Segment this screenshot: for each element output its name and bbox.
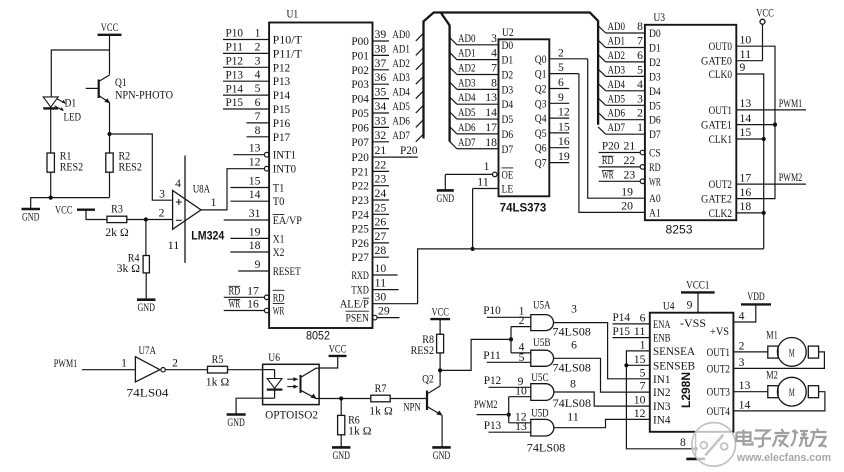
wire OUT3 to M2 xyxy=(733,391,767,393)
svg-text:8: 8 xyxy=(255,125,261,137)
watermark url www.elecfans.com xyxy=(736,452,831,464)
svg-text:OUT4: OUT4 xyxy=(707,406,731,418)
svg-text:P20: P20 xyxy=(400,145,418,157)
resistor R3 xyxy=(105,204,146,239)
svg-text:22: 22 xyxy=(624,155,636,167)
wire U2 LE to ALE xyxy=(471,189,475,251)
svg-text:23: 23 xyxy=(624,170,636,182)
svg-text:2k Ω: 2k Ω xyxy=(105,227,128,239)
wire ALE/P to CLKs and LE xyxy=(373,249,764,304)
svg-text:17: 17 xyxy=(740,172,752,184)
svg-text:GND: GND xyxy=(433,450,451,462)
svg-text:M2: M2 xyxy=(766,369,778,381)
svg-text:16: 16 xyxy=(558,136,570,148)
svg-text:RES2: RES2 xyxy=(119,162,143,174)
svg-text:11: 11 xyxy=(634,326,646,338)
svg-text:P13: P13 xyxy=(273,76,291,88)
svg-text:14: 14 xyxy=(485,107,497,119)
svg-text:P25: P25 xyxy=(351,224,369,236)
svg-text:T1: T1 xyxy=(273,183,285,195)
svg-text:8253: 8253 xyxy=(666,223,693,237)
wire OUT4 to M2 xyxy=(733,392,825,411)
op-amp U8A LM324 xyxy=(159,156,225,263)
svg-text:10: 10 xyxy=(740,34,752,46)
svg-text:M: M xyxy=(789,345,795,359)
svg-text:P20: P20 xyxy=(602,141,620,153)
svg-text:3k Ω: 3k Ω xyxy=(117,263,140,275)
svg-text:P26: P26 xyxy=(351,238,369,250)
svg-text:25: 25 xyxy=(375,202,387,214)
svg-text:28: 28 xyxy=(375,245,387,257)
svg-text:U5D: U5D xyxy=(531,405,549,419)
ground GND under R6 xyxy=(332,447,351,462)
svg-text:8: 8 xyxy=(680,437,686,449)
svg-text:AD6: AD6 xyxy=(392,115,410,127)
svg-text:15: 15 xyxy=(740,127,752,139)
svg-text:14: 14 xyxy=(739,399,751,411)
svg-text:13: 13 xyxy=(739,380,751,392)
node Q1 emitter junction to op-amp xyxy=(107,132,172,200)
svg-text:RES2: RES2 xyxy=(411,345,435,357)
svg-text:P21: P21 xyxy=(351,166,369,178)
resistor R8 xyxy=(411,334,444,371)
svg-text:31: 31 xyxy=(249,208,261,220)
bus AD0-AD7 address/data xyxy=(416,13,606,149)
svg-text:AD7: AD7 xyxy=(392,130,410,142)
svg-text:11: 11 xyxy=(477,177,489,189)
node P11 xyxy=(483,350,531,362)
svg-text:P12: P12 xyxy=(484,375,502,387)
svg-text:38: 38 xyxy=(375,43,387,55)
svg-text:-VSS: -VSS xyxy=(680,318,706,330)
svg-text:5: 5 xyxy=(255,83,261,95)
ground GND at U2 OE xyxy=(437,174,455,205)
svg-text:GND: GND xyxy=(332,450,350,462)
svg-text:IN4: IN4 xyxy=(653,414,671,426)
svg-text:8: 8 xyxy=(570,379,576,391)
svg-text:AD3: AD3 xyxy=(458,77,476,89)
svg-text:7: 7 xyxy=(637,36,643,48)
svg-text:AD3: AD3 xyxy=(608,64,626,76)
ground GND under R4 xyxy=(137,300,156,315)
resistor R2 xyxy=(106,134,142,198)
svg-text:11: 11 xyxy=(740,49,752,61)
svg-text:GATE1: GATE1 xyxy=(701,120,732,132)
svg-text:4: 4 xyxy=(175,178,181,190)
svg-text:3: 3 xyxy=(739,357,745,369)
svg-text:LE: LE xyxy=(502,184,514,196)
svg-text:M: M xyxy=(789,385,795,399)
svg-text:2: 2 xyxy=(159,208,165,220)
power VCC at R8 xyxy=(430,307,450,335)
svg-text:LED: LED xyxy=(64,112,82,124)
svg-text:8: 8 xyxy=(491,77,497,89)
svg-text:4: 4 xyxy=(739,311,745,323)
watermark elecfans logo xyxy=(692,423,736,467)
svg-text:U5B: U5B xyxy=(533,335,551,349)
wire Q0 to A0 xyxy=(588,59,645,199)
svg-text:P00: P00 xyxy=(351,36,369,48)
svg-text:D3: D3 xyxy=(502,84,514,96)
svg-text:9: 9 xyxy=(255,259,261,271)
svg-text:L298N: L298N xyxy=(679,372,693,408)
svg-text:29: 29 xyxy=(378,306,390,318)
resistor R1 xyxy=(47,151,83,198)
svg-text:SENSEA: SENSEA xyxy=(653,346,696,358)
svg-text:AD1: AD1 xyxy=(392,43,410,55)
svg-text:P12: P12 xyxy=(273,62,291,74)
svg-text:17: 17 xyxy=(247,286,259,298)
AND gate U5C 74LS08 xyxy=(515,370,591,410)
node P13 xyxy=(484,420,531,432)
svg-text:R7: R7 xyxy=(375,383,387,395)
svg-text:CLK1: CLK1 xyxy=(709,134,733,146)
svg-text:3: 3 xyxy=(571,304,577,316)
svg-text:15: 15 xyxy=(634,354,646,366)
svg-text:GND: GND xyxy=(227,417,245,429)
svg-text:TXD: TXD xyxy=(351,285,369,297)
svg-text:RD: RD xyxy=(649,162,661,174)
svg-text:X2: X2 xyxy=(273,247,285,259)
svg-text:VCC: VCC xyxy=(756,8,774,20)
AND gate U5B 74LS08 xyxy=(519,335,591,374)
wire Q2 collector to gate inputs xyxy=(438,337,513,372)
ground GND left xyxy=(21,209,40,224)
svg-text:P06: P06 xyxy=(351,122,369,134)
svg-text:Q7: Q7 xyxy=(535,158,547,170)
svg-text:U5C: U5C xyxy=(531,370,549,384)
power VCC at U6 collector xyxy=(319,343,346,368)
svg-text:RD: RD xyxy=(602,155,614,167)
wire OUT0 to GATE1/GATE2 xyxy=(736,46,777,198)
svg-text:WR: WR xyxy=(602,170,614,182)
svg-text:SENSEB: SENSEB xyxy=(653,360,695,372)
wire U7A out to R5 xyxy=(165,369,207,371)
wire U5D out to IN4 xyxy=(554,419,650,427)
svg-text:20: 20 xyxy=(621,201,633,213)
svg-text:Q2: Q2 xyxy=(535,84,547,96)
IC U1 8052 xyxy=(223,7,418,343)
svg-text:ENA: ENA xyxy=(653,319,671,331)
svg-text:27: 27 xyxy=(375,231,387,243)
svg-text:37: 37 xyxy=(375,58,387,70)
node P14 at ENA xyxy=(613,312,650,324)
svg-text:NPN: NPN xyxy=(403,402,421,414)
svg-text:D3: D3 xyxy=(649,71,661,83)
svg-text:IN2: IN2 xyxy=(653,387,671,399)
svg-text:Q0: Q0 xyxy=(535,54,547,66)
svg-text:AD0: AD0 xyxy=(458,33,476,45)
svg-text:PSEN: PSEN xyxy=(346,313,370,325)
svg-text:U1: U1 xyxy=(287,7,299,21)
svg-text:D6: D6 xyxy=(502,129,514,141)
svg-text:14: 14 xyxy=(249,189,261,201)
svg-text:D0: D0 xyxy=(649,28,661,40)
svg-text:AD7: AD7 xyxy=(458,137,476,149)
svg-text:P11/T: P11/T xyxy=(273,48,302,60)
svg-text:6: 6 xyxy=(558,77,564,89)
IC U2 74LS373 xyxy=(445,25,587,215)
svg-text:D5: D5 xyxy=(502,114,514,126)
svg-text:2: 2 xyxy=(255,41,261,53)
svg-text:4: 4 xyxy=(637,79,643,91)
svg-text:GND: GND xyxy=(22,212,40,224)
AND gate U5A 74LS08 xyxy=(519,298,591,339)
svg-text:INT1: INT1 xyxy=(273,150,297,162)
wire R3 node to op-amp inverting input xyxy=(144,217,173,255)
svg-text:AD2: AD2 xyxy=(392,58,410,70)
svg-text:11: 11 xyxy=(375,278,387,290)
svg-text:PWM2: PWM2 xyxy=(474,399,498,411)
svg-text:1k Ω: 1k Ω xyxy=(348,426,371,438)
svg-text:8052: 8052 xyxy=(306,329,330,343)
svg-text:18: 18 xyxy=(485,137,497,149)
svg-text:Q1: Q1 xyxy=(115,77,127,89)
svg-text:Q5: Q5 xyxy=(535,128,547,140)
svg-text:OUT3: OUT3 xyxy=(707,387,731,399)
svg-text:35: 35 xyxy=(375,87,387,99)
svg-text:22: 22 xyxy=(375,159,387,171)
svg-text:2: 2 xyxy=(637,108,643,120)
svg-text:P07: P07 xyxy=(351,137,369,149)
power VDD at U4 pin4 xyxy=(733,291,771,322)
svg-text:16: 16 xyxy=(740,187,752,199)
node P10 xyxy=(483,305,531,317)
svg-text:39: 39 xyxy=(375,29,387,41)
svg-text:D2: D2 xyxy=(502,70,514,82)
svg-text:Q2: Q2 xyxy=(422,374,434,386)
svg-text:16: 16 xyxy=(247,299,259,311)
svg-text:5: 5 xyxy=(558,62,564,74)
svg-text:P01: P01 xyxy=(351,50,369,62)
svg-text:D1: D1 xyxy=(502,55,514,67)
svg-text:VCC1: VCC1 xyxy=(686,280,710,292)
svg-text:RES2: RES2 xyxy=(60,162,84,174)
svg-text:VCC: VCC xyxy=(329,343,347,355)
svg-text:2: 2 xyxy=(739,340,745,352)
svg-text:AD0: AD0 xyxy=(392,29,410,41)
svg-text:P11: P11 xyxy=(226,42,244,54)
svg-text:6: 6 xyxy=(640,312,646,324)
svg-text:P10: P10 xyxy=(483,305,501,317)
svg-text:AD2: AD2 xyxy=(608,50,626,62)
wire SENSEA/SENSEB to GND rail xyxy=(624,351,698,451)
node PWM1 input xyxy=(54,358,136,370)
svg-text:R5: R5 xyxy=(212,354,224,366)
svg-text:4: 4 xyxy=(491,48,497,60)
svg-text:6: 6 xyxy=(571,339,577,351)
svg-text:U4: U4 xyxy=(663,299,675,313)
svg-text:D2: D2 xyxy=(649,57,661,69)
svg-text:CS: CS xyxy=(649,148,661,160)
wire bottom rail R1/R2 to GND xyxy=(31,196,110,210)
ground GND at U6 cathode xyxy=(227,398,263,429)
svg-text:X1: X1 xyxy=(273,233,285,245)
wire U6 emitter to R7 node xyxy=(319,396,371,400)
svg-text:VCC: VCC xyxy=(431,307,449,319)
svg-text:P16: P16 xyxy=(273,118,291,130)
svg-text:4: 4 xyxy=(255,69,261,81)
motor M1 xyxy=(766,330,819,367)
svg-text:9: 9 xyxy=(687,300,693,312)
svg-text:D6: D6 xyxy=(649,115,661,127)
optocoupler U6 OPTOISO2 xyxy=(263,350,320,421)
svg-text:D5: D5 xyxy=(649,100,661,112)
svg-text:21: 21 xyxy=(375,145,387,157)
svg-text:7: 7 xyxy=(255,111,261,123)
svg-text:74LS08: 74LS08 xyxy=(553,396,592,410)
svg-text:3: 3 xyxy=(491,33,497,45)
svg-text:AD1: AD1 xyxy=(608,36,626,48)
svg-text:13: 13 xyxy=(485,92,497,104)
svg-text:36: 36 xyxy=(375,72,387,84)
svg-text:1: 1 xyxy=(637,122,643,134)
svg-text:AD1: AD1 xyxy=(458,48,476,60)
svg-text:P10/T: P10/T xyxy=(273,35,302,47)
resistor R4 xyxy=(117,253,150,300)
svg-text:AD2: AD2 xyxy=(458,63,476,75)
node PWM2 at OUT2 xyxy=(736,172,806,184)
svg-text:CLK0: CLK0 xyxy=(709,69,733,81)
svg-text:AD7: AD7 xyxy=(608,122,626,134)
svg-text:VCC: VCC xyxy=(101,22,119,34)
svg-text:2: 2 xyxy=(558,47,564,59)
svg-text:33: 33 xyxy=(375,115,387,127)
svg-text:P15: P15 xyxy=(613,326,631,338)
svg-text:74LS08: 74LS08 xyxy=(552,325,591,339)
svg-text:12: 12 xyxy=(634,408,646,420)
svg-text:13: 13 xyxy=(515,421,527,433)
svg-text:10: 10 xyxy=(375,263,387,275)
AND gate U5D 74LS08 xyxy=(515,405,579,454)
IC U3 8253 xyxy=(599,10,752,236)
svg-text:P14: P14 xyxy=(273,90,291,102)
svg-text:13: 13 xyxy=(249,143,261,155)
svg-text:D7: D7 xyxy=(502,144,514,156)
svg-text:1k Ω: 1k Ω xyxy=(369,405,392,417)
svg-text:12: 12 xyxy=(558,107,570,119)
svg-text:74LS04: 74LS04 xyxy=(127,385,169,399)
svg-text:P15: P15 xyxy=(226,97,244,109)
wire OUT1 to M1 xyxy=(733,351,767,353)
svg-text:1: 1 xyxy=(211,197,217,209)
svg-text:P05: P05 xyxy=(351,108,369,120)
svg-text:P15: P15 xyxy=(273,104,291,116)
svg-text:GND: GND xyxy=(437,193,455,205)
svg-text:WR: WR xyxy=(649,176,661,188)
svg-text:18: 18 xyxy=(249,240,261,252)
ground GND at U4 pin8 xyxy=(680,432,721,459)
svg-text:P13: P13 xyxy=(484,420,502,432)
inverter U7A 74LS04 xyxy=(121,343,178,399)
svg-text:A1: A1 xyxy=(649,207,661,219)
svg-text:11: 11 xyxy=(168,240,180,252)
resistor R7 xyxy=(369,383,427,418)
svg-text:EA/VP: EA/VP xyxy=(273,215,302,227)
svg-text:AD5: AD5 xyxy=(458,107,476,119)
svg-text:AD5: AD5 xyxy=(608,93,626,105)
svg-text:WR: WR xyxy=(229,299,241,311)
svg-text:RXD: RXD xyxy=(351,270,369,282)
svg-text:32: 32 xyxy=(375,130,387,142)
svg-text:9: 9 xyxy=(740,62,746,74)
svg-text:U6: U6 xyxy=(268,350,280,364)
svg-text:OUT1: OUT1 xyxy=(707,347,731,359)
svg-text:AD6: AD6 xyxy=(608,108,626,120)
svg-text:OPTOISO2: OPTOISO2 xyxy=(265,409,318,421)
wire OUT2 to M1 xyxy=(733,352,824,369)
svg-text:P22: P22 xyxy=(351,181,369,193)
LED D1 xyxy=(43,97,81,153)
svg-text:P12: P12 xyxy=(226,56,244,68)
wire op-amp output to INT0 xyxy=(201,169,265,210)
svg-text:14: 14 xyxy=(740,113,752,125)
svg-text:OE: OE xyxy=(502,169,514,181)
svg-text:U7A: U7A xyxy=(139,343,157,357)
svg-text:CLK2: CLK2 xyxy=(709,208,733,220)
svg-text:A0: A0 xyxy=(649,193,661,205)
wire CLK0/CLK1/CLK2 to ALE xyxy=(736,74,766,249)
svg-text:7: 7 xyxy=(640,381,646,393)
svg-text:D4: D4 xyxy=(502,99,514,111)
svg-text:IN1: IN1 xyxy=(653,374,671,386)
svg-text:3: 3 xyxy=(637,93,643,105)
svg-text:P10: P10 xyxy=(226,28,244,40)
svg-text:P17: P17 xyxy=(273,132,291,144)
svg-text:WR: WR xyxy=(273,306,285,318)
svg-text:34: 34 xyxy=(375,101,387,113)
svg-text:5: 5 xyxy=(640,367,646,379)
node P12 xyxy=(484,375,531,387)
ground GND at Q2 emitter xyxy=(432,447,451,462)
svg-text:T0: T0 xyxy=(273,196,285,208)
svg-text:OUT2: OUT2 xyxy=(709,179,733,191)
svg-text:OUT0: OUT0 xyxy=(709,41,733,53)
svg-text:5: 5 xyxy=(637,64,643,76)
svg-text:P23: P23 xyxy=(351,195,369,207)
svg-text:AD0: AD0 xyxy=(608,21,626,33)
node P15 at ENB xyxy=(613,326,650,338)
svg-text:P02: P02 xyxy=(351,65,369,77)
svg-text:Q6: Q6 xyxy=(535,143,547,155)
svg-text:3: 3 xyxy=(159,189,165,201)
wire U5A out to IN1 xyxy=(554,323,650,379)
svg-text:D0: D0 xyxy=(502,40,514,52)
wire U5C pin10/U5D pin12 tie with PWM2 xyxy=(507,397,531,423)
svg-text:PWM1: PWM1 xyxy=(779,98,803,110)
svg-text:OUT2: OUT2 xyxy=(707,363,731,375)
svg-text:INT0: INT0 xyxy=(273,164,297,176)
wire VCC to D1 and Q1 collector xyxy=(51,50,109,97)
svg-text:30: 30 xyxy=(375,292,387,304)
svg-text:VCC: VCC xyxy=(55,205,73,217)
svg-text:U8A: U8A xyxy=(193,182,211,196)
watermark text dianzifashaoyou xyxy=(737,429,827,448)
wire U5C out to IN3 xyxy=(554,392,650,406)
svg-text:24: 24 xyxy=(375,188,387,200)
svg-text:RD: RD xyxy=(273,292,285,304)
svg-text:GATE0: GATE0 xyxy=(701,56,732,68)
svg-text:ENB: ENB xyxy=(653,333,671,345)
svg-text:19: 19 xyxy=(249,226,261,238)
svg-text:IN3: IN3 xyxy=(653,401,671,413)
svg-text:PWM1: PWM1 xyxy=(54,358,78,370)
svg-text:AD3: AD3 xyxy=(392,72,410,84)
svg-text:D7: D7 xyxy=(649,129,661,141)
svg-text:P13: P13 xyxy=(226,69,244,81)
svg-text:AD5: AD5 xyxy=(392,101,410,113)
svg-text:www.elecfans.com: www.elecfans.com xyxy=(736,452,831,464)
